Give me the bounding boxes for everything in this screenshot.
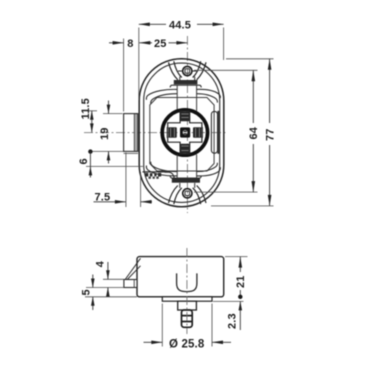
bottom bar hooked	[170, 176, 201, 178]
svg-text:64: 64	[248, 126, 260, 139]
centerline vertical front view	[186, 36, 188, 213]
right edge dark bar	[217, 111, 219, 154]
hole side ticks	[178, 70, 197, 72]
ext line 8 left	[123, 39, 125, 112]
svg-text:11.5: 11.5	[80, 98, 92, 119]
latch bolt side	[124, 280, 137, 288]
bottom screw hole	[183, 189, 192, 198]
rotor arm cap notches	[171, 114, 200, 151]
svg-text:5: 5	[81, 289, 93, 295]
rotor cross outline	[167, 111, 202, 154]
dim 25.8	[144, 304, 232, 351]
body inner oval	[144, 63, 220, 202]
dim 77	[265, 59, 277, 206]
bottom knurl band	[172, 178, 200, 182]
bottom view body	[137, 257, 224, 297]
plate	[150, 98, 214, 172]
top-right wing	[197, 89, 221, 102]
bottom hole column	[180, 183, 195, 188]
U cup	[177, 273, 197, 291]
knob ring	[162, 110, 207, 155]
svg-text:77: 77	[265, 128, 277, 141]
top hole column	[180, 77, 195, 81]
bottom column	[177, 155, 196, 178]
top column	[177, 85, 196, 110]
svg-text:25: 25	[154, 38, 167, 50]
bottom mounting arms	[169, 186, 207, 205]
top-left wing	[146, 89, 177, 103]
ext line body right top	[223, 28, 225, 61]
step block	[178, 301, 197, 310]
svg-text:2.3: 2.3	[227, 313, 239, 329]
svg-text:44.5: 44.5	[169, 19, 191, 31]
svg-text:21: 21	[235, 275, 247, 288]
top bar hooked	[170, 85, 201, 87]
right slot	[211, 111, 217, 153]
flange	[162, 297, 212, 301]
centerline horizontal front view	[84, 132, 228, 134]
ext line body left top	[138, 28, 140, 101]
bottom-left wing	[146, 162, 177, 176]
svg-text:6: 6	[78, 158, 90, 164]
label step curve	[165, 172, 175, 178]
dim 5	[81, 275, 95, 311]
svg-text:4: 4	[94, 260, 106, 267]
dim 44.5	[139, 19, 224, 31]
dim 19	[99, 101, 123, 164]
ext lines right side	[226, 58, 274, 60]
top knurl band	[174, 80, 198, 84]
top mounting arms	[169, 61, 207, 80]
ext lines bottom view left	[103, 278, 124, 280]
dim 2.3	[227, 301, 243, 330]
dim 25	[139, 38, 187, 50]
wedge nose	[124, 258, 141, 281]
body outer oval	[139, 59, 224, 207]
centerline bottom view	[186, 248, 188, 334]
ext lines bottom view right	[225, 256, 248, 258]
bottom-right wing	[197, 163, 221, 176]
dim 64	[248, 70, 260, 192]
svg-text:8: 8	[127, 38, 133, 50]
label row2	[149, 177, 159, 179]
dim 11.5	[80, 98, 97, 132]
top screw hole	[183, 66, 192, 75]
dim 6	[78, 149, 143, 177]
latch bolt front	[124, 114, 138, 154]
dim 4	[94, 260, 109, 296]
dim 21	[235, 257, 247, 299]
svg-text:Ø 25.8: Ø 25.8	[169, 339, 205, 351]
dim 7.5	[94, 153, 153, 208]
ribbed tip	[182, 310, 193, 327]
rotor center	[180, 127, 190, 137]
dim 8	[109, 38, 133, 50]
label block 1515A	[143, 172, 171, 177]
svg-text:19: 19	[99, 127, 111, 140]
rotor arm caps	[168, 112, 201, 154]
